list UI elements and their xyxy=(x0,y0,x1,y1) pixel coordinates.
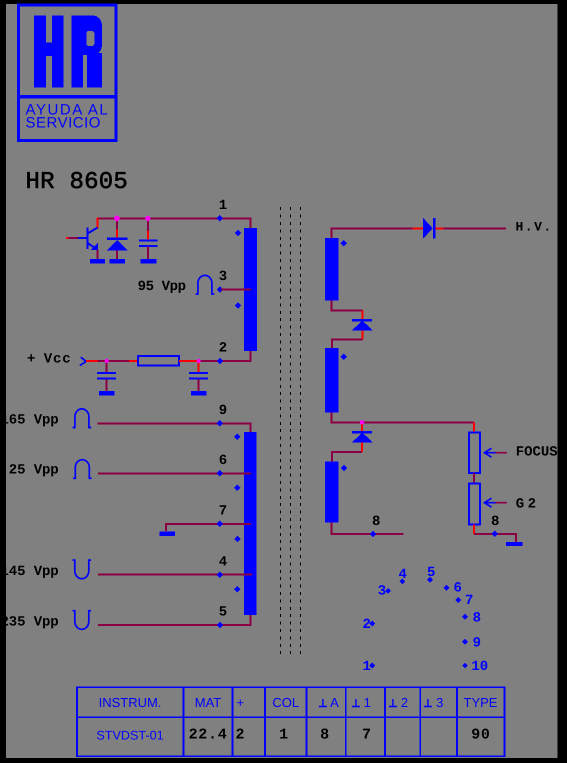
resistor G2 xyxy=(469,483,480,524)
transformer core xyxy=(281,207,301,655)
svg-text:1: 1 xyxy=(279,727,289,744)
wire: HV diode red lead right xyxy=(435,227,443,229)
capacitor C2 xyxy=(97,361,116,392)
ground (transistor emitter) xyxy=(90,259,105,263)
wire: W5 bottom to pin 8 xyxy=(331,523,403,535)
svg-text:FOCUS: FOCUS xyxy=(516,445,558,461)
svg-text:H.V.: H.V. xyxy=(516,219,553,234)
pin 4 node xyxy=(217,571,224,578)
svg-text:6: 6 xyxy=(454,580,462,596)
wire: D5 to W5 xyxy=(332,452,362,461)
svg-text:10: 10 xyxy=(471,659,488,675)
svg-text:235 Vpp: 235 Vpp xyxy=(1,614,59,630)
svg-text:+: + xyxy=(237,695,245,710)
wire pin 5 xyxy=(98,615,251,625)
winding W3 (secondary top) xyxy=(325,238,339,301)
svg-text:G2: G2 xyxy=(516,497,540,513)
HR logo box xyxy=(17,5,117,141)
svg-text:A: A xyxy=(330,695,339,710)
winding dot W1b xyxy=(235,302,242,309)
winding W1 (primary 1-3-2) xyxy=(244,228,257,351)
wire: D4 red lead xyxy=(361,310,363,339)
svg-text:1: 1 xyxy=(363,659,371,675)
wire pin 6 xyxy=(98,472,251,474)
svg-text:Vcc: Vcc xyxy=(44,352,72,368)
wire: Vcc red stub xyxy=(86,360,97,362)
svg-text:8: 8 xyxy=(491,514,499,530)
svg-text:2: 2 xyxy=(401,695,408,710)
svg-text:145 Vpp: 145 Vpp xyxy=(1,564,59,580)
svg-text:5: 5 xyxy=(219,605,227,621)
Vcc input chevron xyxy=(80,357,86,365)
junction node (capacitor) xyxy=(145,216,150,221)
wire: between focus and G2 xyxy=(473,473,475,483)
svg-text:7: 7 xyxy=(465,593,473,609)
svg-text:25 Vpp: 25 Vpp xyxy=(9,463,59,479)
HR letters xyxy=(34,15,46,87)
pin 3 node xyxy=(217,286,224,293)
winding dot W5a xyxy=(341,465,348,472)
wire: capacitor red lead xyxy=(147,218,149,231)
wire: D5 red lead xyxy=(361,422,363,452)
svg-text:3: 3 xyxy=(219,269,227,285)
svg-text:165 Vpp: 165 Vpp xyxy=(1,413,59,429)
winding W4 (secondary middle) xyxy=(325,348,339,413)
ground (C3) xyxy=(191,391,206,396)
wire pin 4 xyxy=(98,574,252,576)
wire: focus red lead top xyxy=(473,422,475,432)
wire: resistor red lead right xyxy=(179,360,199,362)
junction node (C2) xyxy=(105,359,109,363)
transistor Q1 xyxy=(66,228,98,260)
junction node (D5) xyxy=(360,420,364,424)
svg-text:8: 8 xyxy=(320,727,330,744)
svg-text:95 Vpp: 95 Vpp xyxy=(138,279,186,295)
diode D4 (rectifier) xyxy=(352,319,373,331)
svg-text:6: 6 xyxy=(219,453,227,469)
pin 7 node xyxy=(217,521,224,528)
resistor R1 xyxy=(138,356,179,366)
wire: HV rail xyxy=(331,228,412,238)
resistor FOCUS xyxy=(469,432,480,473)
svg-text:COL: COL xyxy=(272,695,299,710)
winding W5 (secondary bottom) xyxy=(325,462,339,523)
winding W2 (primary 9-6-7-4-5) xyxy=(244,432,257,615)
svg-text:3: 3 xyxy=(378,584,386,600)
pin 5 node xyxy=(217,622,224,629)
table headers xyxy=(99,695,498,710)
pin 8 node (left) xyxy=(370,531,377,538)
svg-text:1: 1 xyxy=(364,695,371,710)
svg-text:9: 9 xyxy=(473,635,481,651)
winding dot W2c xyxy=(234,536,241,543)
wire: HV diode red lead left xyxy=(413,227,423,229)
svg-text:1: 1 xyxy=(219,198,227,214)
waveform negative (145 Vpp) xyxy=(73,560,92,579)
wire: D4 to W4 xyxy=(332,340,363,349)
wire: G2 red lead bottom xyxy=(473,524,475,534)
diode D3 (EHT) xyxy=(423,218,435,239)
waveform negative (235 Vpp) xyxy=(73,611,92,630)
wire: collector red lead xyxy=(97,217,99,228)
diode D1 damper xyxy=(107,238,128,260)
svg-text:+: + xyxy=(27,352,35,368)
winding dot W4a xyxy=(340,353,347,360)
pin 2 node xyxy=(217,358,224,365)
pin 9 node xyxy=(217,420,224,427)
capacitor C3 xyxy=(189,361,208,392)
pin fan diagram xyxy=(363,565,489,675)
svg-text:4: 4 xyxy=(219,554,227,570)
svg-text:2: 2 xyxy=(235,727,245,744)
wire: Vcc rail to pin 2 xyxy=(199,351,251,361)
junction node (diode) xyxy=(114,216,120,222)
ground (C2) xyxy=(99,391,114,396)
svg-text:8: 8 xyxy=(473,611,481,627)
wire: resistor red lead left xyxy=(129,360,138,362)
data table xyxy=(77,687,505,756)
svg-text:8: 8 xyxy=(372,514,380,530)
wire: G2 to ground xyxy=(474,534,516,542)
svg-text:7: 7 xyxy=(362,727,372,744)
waveform positive (25 Vpp) xyxy=(73,460,92,479)
G2 arrow xyxy=(485,498,507,507)
svg-text:2: 2 xyxy=(363,617,371,633)
svg-text:HR 8605: HR 8605 xyxy=(26,169,129,196)
winding dot W1a xyxy=(235,230,242,237)
wire: primary top rail xyxy=(98,218,251,228)
winding dot W2b xyxy=(234,485,241,492)
svg-text:7: 7 xyxy=(219,503,227,519)
svg-text:TYPE: TYPE xyxy=(464,695,498,710)
svg-text:SERVICIO: SERVICIO xyxy=(26,114,101,131)
svg-text:INSTRUM.: INSTRUM. xyxy=(99,695,162,710)
ground symbols in header xyxy=(319,699,432,707)
FOCUS arrow xyxy=(485,448,507,457)
waveform positive (95 Vpp) xyxy=(196,275,215,294)
pin 8 node (right) xyxy=(492,531,499,538)
pin 1 node xyxy=(217,215,224,222)
winding dot W3a xyxy=(340,240,347,247)
wire: diode red lead xyxy=(116,218,118,229)
capacitor C1 xyxy=(139,239,157,259)
svg-text:22.4: 22.4 xyxy=(189,727,228,744)
pin 6 node xyxy=(217,470,224,477)
ground (capacitor C1) xyxy=(141,259,157,263)
ground (pin 7) xyxy=(160,531,176,535)
waveform positive (165 Vpp) xyxy=(73,409,92,428)
winding dot W2a xyxy=(234,434,241,441)
svg-text:9: 9 xyxy=(219,403,227,419)
diode D5 (rectifier) xyxy=(352,431,373,443)
wire pin 9 xyxy=(97,423,250,432)
svg-text:90: 90 xyxy=(471,727,490,744)
wire: to H.V. terminal xyxy=(444,227,506,229)
junction node (C3) xyxy=(197,359,201,363)
wire: W3 to D4 xyxy=(331,301,362,311)
wire pin 7 xyxy=(166,524,251,531)
svg-text:3: 3 xyxy=(436,695,443,710)
ground (G2) xyxy=(506,542,522,546)
ground (diode D1) xyxy=(110,259,126,263)
svg-text:MAT: MAT xyxy=(195,695,222,710)
wire: W4 bottom rail to focus divider xyxy=(331,413,474,423)
winding dot W2d xyxy=(234,586,241,593)
wire pin 3 xyxy=(221,288,251,290)
svg-text:STVDST-01: STVDST-01 xyxy=(96,729,163,743)
svg-text:2: 2 xyxy=(219,341,227,357)
wire: Vcc rail xyxy=(98,360,130,362)
